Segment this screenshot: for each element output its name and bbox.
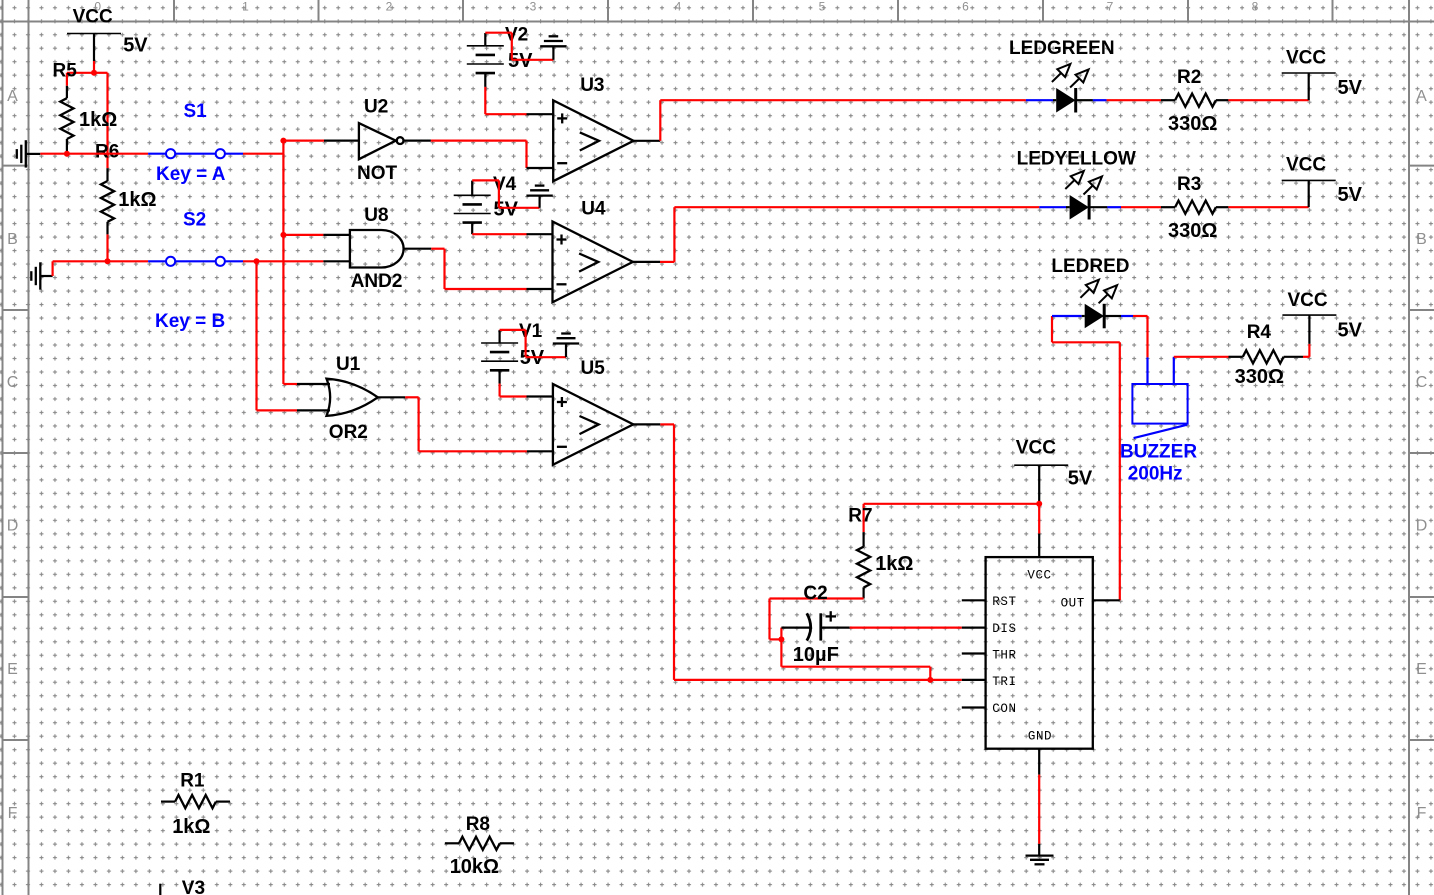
svg-text:V1: V1 bbox=[519, 321, 543, 342]
svg-text:U4: U4 bbox=[581, 199, 606, 220]
svg-text:R6: R6 bbox=[95, 142, 119, 163]
svg-text:RST: RST bbox=[992, 595, 1016, 609]
wire C2 node to TRI bbox=[781, 639, 930, 680]
junction VCC node bbox=[91, 70, 97, 76]
svg-text:A: A bbox=[7, 88, 18, 105]
wire R6 to S2 row bbox=[106, 234, 108, 261]
wire V1 minus to U5 non-inverting input bbox=[500, 384, 527, 397]
svg-text:LEDRED: LEDRED bbox=[1051, 256, 1129, 277]
svg-text:NOT: NOT bbox=[357, 163, 398, 184]
svg-text:E: E bbox=[1416, 661, 1427, 678]
junction R6 bottom bbox=[105, 258, 111, 264]
ground at V1 bbox=[553, 334, 579, 358]
svg-text:D: D bbox=[1416, 517, 1428, 534]
svg-text:U2: U2 bbox=[364, 96, 388, 117]
wire buzzer pin 2 to R4 bbox=[1174, 356, 1229, 358]
wire ground elbow to S2 bbox=[53, 261, 149, 276]
svg-text:5V: 5V bbox=[494, 199, 519, 221]
wire R2 to VCC bbox=[1228, 99, 1308, 101]
svg-text:U8: U8 bbox=[364, 205, 388, 226]
power VCC symbol V=5V top-left bbox=[67, 7, 148, 62]
svg-text:V2: V2 bbox=[505, 24, 528, 45]
pin DIS stub bbox=[962, 626, 986, 628]
svg-text:V4: V4 bbox=[493, 174, 517, 195]
svg-text:LEDGREEN: LEDGREEN bbox=[1009, 38, 1115, 59]
svg-text:10kΩ: 10kΩ bbox=[450, 856, 499, 878]
svg-text:S2: S2 bbox=[183, 210, 206, 231]
svg-text:BUZZER: BUZZER bbox=[1120, 442, 1197, 463]
wire U8 output to U4 inverting input bbox=[431, 249, 526, 289]
wire V1 plus to ground bbox=[500, 330, 566, 357]
svg-text:LEDYELLOW: LEDYELLOW bbox=[1017, 149, 1136, 170]
ground at S1 input bbox=[17, 140, 41, 167]
svg-text:330Ω: 330Ω bbox=[1168, 220, 1217, 242]
svg-text:4: 4 bbox=[675, 0, 682, 14]
svg-text:1kΩ: 1kΩ bbox=[79, 109, 117, 131]
inverter U2 NOT bbox=[324, 96, 431, 183]
power VCC at 555 bbox=[1014, 438, 1093, 502]
led LEDGREEN bbox=[1009, 38, 1115, 112]
wire VCC to R5/R6 bbox=[67, 61, 108, 168]
svg-text:1kΩ: 1kΩ bbox=[172, 816, 210, 838]
wire U3 output to LEDGREEN bbox=[660, 100, 1026, 141]
wire VCC to 555 and R7 bbox=[864, 502, 1040, 557]
svg-text:5V: 5V bbox=[1338, 77, 1363, 99]
svg-text:B: B bbox=[1416, 231, 1427, 248]
svg-text:GND: GND bbox=[1028, 729, 1052, 743]
svg-text:C: C bbox=[7, 374, 19, 391]
junction node B bbox=[254, 258, 260, 264]
resistor R2 330 bbox=[1161, 67, 1228, 107]
resistor R1 1k spare bbox=[161, 771, 230, 809]
wire ground to S1 bbox=[40, 153, 148, 155]
ground at S2 input bbox=[31, 262, 52, 289]
junction node A at U2 input bbox=[280, 138, 286, 144]
wire S2 to node B column bbox=[243, 260, 323, 262]
svg-text:VCC: VCC bbox=[1288, 290, 1328, 311]
svg-text:D: D bbox=[7, 517, 19, 534]
svg-text:5: 5 bbox=[819, 0, 826, 14]
resistor R4 330 bbox=[1229, 322, 1304, 364]
resistor R7 1k vertical bbox=[848, 504, 872, 599]
comparator U3 bbox=[527, 75, 661, 181]
svg-text:V3: V3 bbox=[182, 878, 205, 895]
svg-text:3: 3 bbox=[530, 0, 537, 14]
svg-text:5V: 5V bbox=[1338, 320, 1363, 342]
junction R5 bottom bbox=[64, 151, 70, 157]
wire to U2 input bbox=[283, 140, 324, 142]
wire 555 GND to ground bbox=[1038, 749, 1040, 856]
battery V1 5V bbox=[481, 321, 545, 384]
power VCC at R4 bbox=[1282, 290, 1362, 344]
battery V2 5V bbox=[467, 24, 533, 87]
svg-text:Key = A: Key = A bbox=[156, 164, 226, 185]
wire node B vertical to OR2 bbox=[257, 261, 298, 410]
svg-text:R3: R3 bbox=[1177, 174, 1201, 195]
svg-text:OR2: OR2 bbox=[329, 422, 368, 443]
svg-text:VCC: VCC bbox=[1286, 47, 1326, 68]
resistor R5 1k vertical bbox=[53, 61, 78, 154]
wire R7 bottom to C2 node bbox=[770, 599, 864, 640]
or gate U1 OR2 bbox=[297, 354, 405, 443]
svg-text:TRI: TRI bbox=[992, 675, 1016, 689]
ground at 555 bbox=[1026, 854, 1054, 856]
wire V2 minus to U3 non-inverting input bbox=[485, 87, 526, 114]
svg-text:5V: 5V bbox=[1068, 467, 1093, 489]
pin TRI stub bbox=[962, 679, 986, 681]
svg-text:U1: U1 bbox=[336, 354, 361, 375]
svg-text:7: 7 bbox=[1107, 0, 1114, 14]
junction VCC 555 bbox=[1036, 501, 1042, 507]
comparator U5 bbox=[527, 358, 661, 465]
wire U1 output to U5 inverting input bbox=[405, 397, 527, 451]
svg-text:6: 6 bbox=[962, 0, 969, 14]
wire V4 plus to ground bbox=[472, 180, 539, 207]
svg-text:E: E bbox=[7, 661, 18, 678]
svg-text:200Hz: 200Hz bbox=[1128, 464, 1183, 485]
wire node A vertical bbox=[283, 141, 297, 384]
led LEDYELLOW bbox=[1017, 149, 1136, 220]
ground at V4 bbox=[526, 186, 552, 208]
junction C2 node bbox=[778, 636, 784, 642]
svg-text:C2: C2 bbox=[803, 583, 827, 604]
wire LEDYELLOW to R3 bbox=[1121, 206, 1161, 208]
svg-text:F: F bbox=[1417, 805, 1427, 822]
svg-text:U3: U3 bbox=[580, 75, 604, 96]
junction node A at U8 input bbox=[280, 232, 286, 238]
svg-text:R7: R7 bbox=[848, 506, 872, 527]
junction TRI node bbox=[927, 677, 933, 683]
svg-text:10µF: 10µF bbox=[793, 644, 839, 666]
led LEDRED bbox=[1051, 256, 1133, 329]
resistor R8 10k spare bbox=[445, 814, 514, 850]
svg-text:C: C bbox=[1416, 374, 1428, 391]
pin OUT stub bbox=[1093, 599, 1120, 601]
svg-text:R1: R1 bbox=[180, 771, 205, 792]
battery V4 5V bbox=[454, 174, 519, 234]
svg-text:U5: U5 bbox=[581, 358, 606, 379]
buzzer BUZZER 200Hz bbox=[1120, 357, 1197, 485]
switch S1 Key=A bbox=[148, 101, 243, 185]
wire LEDGREEN to R2 bbox=[1107, 99, 1161, 101]
timer U-555 box bbox=[986, 557, 1093, 749]
wire U4 output to LEDYELLOW bbox=[660, 207, 1039, 262]
svg-text:Key = B: Key = B bbox=[155, 311, 225, 332]
battery V3 spare bbox=[160, 878, 205, 895]
svg-text:VCC: VCC bbox=[1027, 568, 1051, 582]
wire V2 plus to ground bbox=[485, 33, 553, 60]
pin CON stub bbox=[962, 706, 986, 708]
svg-text:5V: 5V bbox=[123, 35, 148, 57]
svg-text:330Ω: 330Ω bbox=[1168, 113, 1217, 135]
wire S1 to node A column bbox=[243, 153, 283, 155]
svg-text:DIS: DIS bbox=[992, 622, 1016, 636]
wire node A to U8 top input bbox=[283, 234, 323, 236]
svg-text:R4: R4 bbox=[1247, 322, 1272, 343]
svg-text:R8: R8 bbox=[466, 814, 490, 835]
svg-text:B: B bbox=[7, 231, 18, 248]
svg-text:VCC: VCC bbox=[1286, 155, 1326, 176]
wire LEDRED to buzzer pin 1 bbox=[1133, 316, 1148, 357]
svg-text:1kΩ: 1kΩ bbox=[875, 553, 913, 575]
power VCC at R3 bbox=[1282, 155, 1363, 208]
wire R3 to VCC bbox=[1228, 206, 1308, 208]
svg-text:A: A bbox=[1416, 88, 1427, 105]
comparator U4 bbox=[527, 199, 661, 303]
svg-text:CON: CON bbox=[992, 702, 1016, 716]
svg-text:R2: R2 bbox=[1177, 67, 1201, 88]
switch S2 Key=B bbox=[148, 210, 243, 332]
svg-text:5V: 5V bbox=[1338, 184, 1363, 206]
svg-text:OUT: OUT bbox=[1061, 596, 1085, 610]
svg-text:8: 8 bbox=[1252, 0, 1259, 14]
wire C2 to 555 DIS bbox=[850, 626, 962, 628]
resistor R3 330 bbox=[1161, 174, 1228, 214]
wire 555 OUT to LEDRED bbox=[1052, 316, 1120, 600]
svg-text:VCC: VCC bbox=[73, 7, 113, 28]
svg-text:1kΩ: 1kΩ bbox=[118, 189, 156, 211]
svg-text:1: 1 bbox=[242, 0, 249, 14]
power VCC at R2 bbox=[1282, 47, 1363, 100]
svg-text:VCC: VCC bbox=[1016, 438, 1056, 459]
pin RST stub bbox=[962, 599, 986, 601]
wire R4 to VCC bbox=[1303, 344, 1309, 357]
svg-text:F: F bbox=[8, 805, 18, 822]
svg-text:S1: S1 bbox=[184, 101, 208, 122]
svg-text:2: 2 bbox=[386, 0, 393, 14]
svg-text:THR: THR bbox=[992, 649, 1016, 663]
ground at V2 bbox=[540, 36, 566, 60]
capacitor C2 10uF bbox=[781, 583, 849, 641]
wire U5 output to 555 TRI bbox=[660, 424, 962, 680]
and gate U8 AND2 bbox=[323, 205, 431, 292]
resistor R6 1k vertical bbox=[95, 142, 119, 235]
wire U2 output to U3 inverting input bbox=[431, 141, 527, 168]
svg-text:R5: R5 bbox=[53, 61, 78, 82]
wire V4 minus to U4 non-inverting input bbox=[472, 233, 526, 235]
svg-text:330Ω: 330Ω bbox=[1235, 366, 1284, 388]
pin THR stub bbox=[962, 652, 986, 654]
svg-text:AND2: AND2 bbox=[351, 271, 403, 292]
